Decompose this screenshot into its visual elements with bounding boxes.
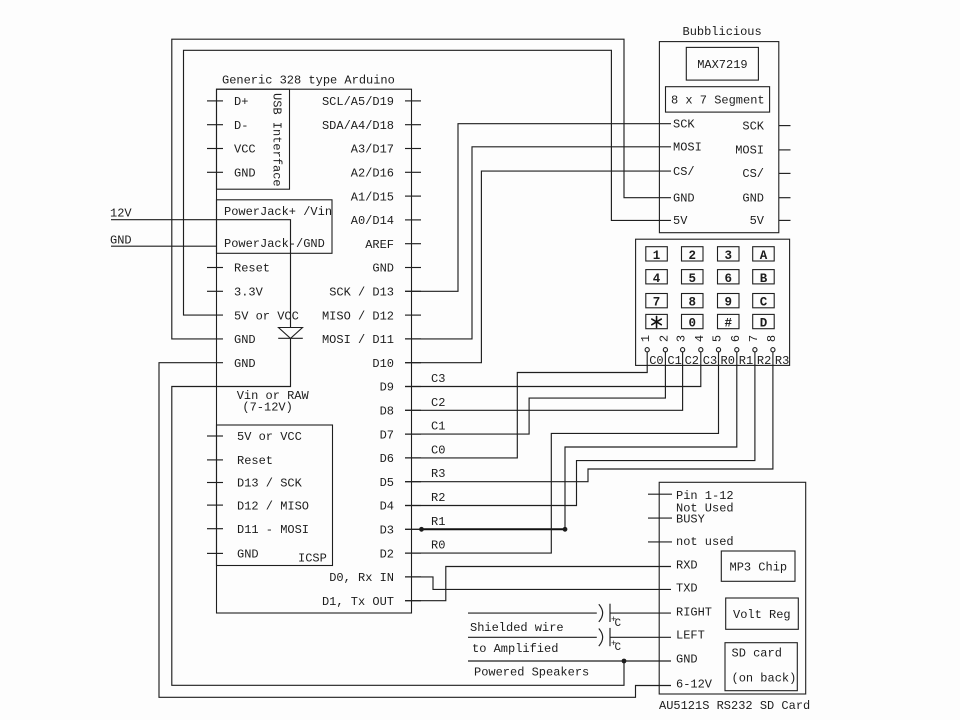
svg-text:(7-12V): (7-12V): [242, 400, 292, 414]
svg-text:12V: 12V: [110, 207, 132, 221]
svg-text:PowerJack+ /Vin: PowerJack+ /Vin: [224, 205, 332, 219]
pin stub ICSP D11: [207, 528, 223, 530]
wire R1: D3 to keypad pin6 (bold segment with junction dots): [405, 528, 422, 530]
svg-text:not used: not used: [676, 535, 734, 549]
svg-text:A2/D16: A2/D16: [351, 167, 394, 181]
svg-text:D4: D4: [380, 500, 394, 514]
svg-text:D3: D3: [380, 524, 394, 538]
svg-text:#: #: [724, 317, 732, 331]
svg-text:8 x 7 Segment: 8 x 7 Segment: [671, 94, 765, 108]
key 6: [718, 270, 740, 284]
svg-text:C2: C2: [685, 354, 699, 368]
svg-text:3: 3: [675, 335, 689, 342]
svg-text:9: 9: [724, 296, 732, 310]
svg-text:D2: D2: [380, 547, 394, 561]
svg-text:D6: D6: [380, 452, 394, 466]
pin stub SDA/A4/D18: [405, 124, 421, 126]
svg-text:GND: GND: [110, 234, 132, 248]
keypad pin circles and digits: [639, 335, 779, 352]
keypad pin 5: [716, 348, 720, 352]
keypad bottom labels C0..R3: [649, 354, 789, 368]
keypad pin 1: [645, 348, 649, 352]
MP3 Chip box: [721, 551, 795, 581]
pin stub USB D-: [207, 124, 223, 126]
wire 5V net: Arduino 5V-or-VCC pin to MAX7219 5V (top route): [184, 50, 672, 315]
pin stub ICSP D13: [207, 482, 223, 484]
svg-text:D-: D-: [234, 119, 248, 133]
net labels C3 C2 C1 C0 R3 R2 R1 R0: [431, 372, 445, 553]
svg-text:6-12V: 6-12V: [676, 678, 713, 692]
svg-text:CS/: CS/: [673, 165, 695, 179]
svg-text:RIGHT: RIGHT: [676, 606, 712, 620]
capacitor C left wire to AU LEFT: [610, 636, 671, 638]
svg-text:R2: R2: [757, 354, 771, 368]
pin stub SCK/D13: [405, 290, 421, 292]
AU5121S pin labels and stubs: [648, 489, 734, 691]
svg-text:5: 5: [688, 272, 696, 286]
svg-text:(on back): (on back): [732, 672, 797, 686]
keypad pin 8: [771, 348, 775, 352]
speaker shield LEFT wire: [468, 636, 597, 638]
wire C2: D8 to keypad pin3: [405, 352, 683, 411]
svg-text:D+: D+: [234, 95, 248, 109]
pin stub USB D+: [207, 100, 223, 102]
speaker shield RIGHT wire: [468, 612, 597, 614]
pin stub D7: [405, 433, 421, 435]
svg-text:SCK / D13: SCK / D13: [329, 286, 394, 300]
svg-text:Generic 328 type Arduino: Generic 328 type Arduino: [222, 74, 395, 88]
svg-text:5V: 5V: [673, 214, 688, 228]
svg-text:TXD: TXD: [676, 582, 698, 596]
svg-text:D5: D5: [380, 476, 394, 490]
svg-text:MP3 Chip: MP3 Chip: [730, 561, 788, 575]
wire CS: Arduino D10 to MAX7219 CS/: [405, 171, 671, 363]
key B: [753, 270, 775, 284]
svg-text:D7: D7: [380, 428, 394, 442]
wire GND2 net: Arduino GND pin 2 to AU5121S 6-12V (bottom route): [159, 363, 671, 698]
svg-text:PowerJack-/GND: PowerJack-/GND: [224, 237, 325, 251]
svg-text:R1: R1: [739, 354, 753, 368]
keypad pin 6: [735, 348, 739, 352]
svg-text:ICSP: ICSP: [298, 552, 327, 566]
pin stub ICSP Reset: [207, 459, 223, 461]
pin stub Reset: [207, 267, 223, 269]
pin stub ICSP D12: [207, 504, 223, 506]
wire C1: D7 to keypad pin2: [405, 352, 665, 434]
svg-text:D: D: [760, 317, 768, 331]
key D: [753, 314, 775, 328]
svg-text:C2: C2: [431, 396, 445, 410]
wire GND input label to PowerJack-: [111, 245, 217, 247]
svg-text:LEFT: LEFT: [676, 629, 705, 643]
key 8: [682, 294, 704, 308]
svg-text:A1/D15: A1/D15: [351, 190, 394, 204]
keypad pin 2: [663, 348, 667, 352]
svg-text:GND: GND: [234, 167, 256, 181]
svg-text:D13 / SCK: D13 / SCK: [237, 477, 303, 491]
svg-text:SCK: SCK: [742, 119, 764, 133]
key 1: [646, 247, 668, 261]
svg-text:R0: R0: [431, 539, 445, 553]
diode D1 triangle: [279, 328, 303, 339]
key #: [718, 314, 740, 328]
svg-text:C3: C3: [431, 372, 445, 386]
IC U1 Generic 328 Arduino box: [217, 89, 412, 613]
svg-text:C1: C1: [431, 420, 445, 434]
svg-text:GND: GND: [673, 191, 695, 205]
svg-text:R3: R3: [775, 354, 789, 368]
pin stub D1: [405, 600, 421, 602]
Bubblicious module box: [659, 42, 778, 233]
svg-text:Reset: Reset: [237, 454, 273, 468]
svg-text:8: 8: [765, 335, 779, 342]
left pin labels group: [234, 95, 310, 561]
capacitor C left: straight plate: [609, 628, 611, 646]
svg-text:R1: R1: [431, 515, 445, 529]
pin stub MOSI/D11: [405, 338, 421, 340]
svg-text:SDA/A4/D18: SDA/A4/D18: [322, 119, 394, 133]
key 3: [718, 247, 740, 261]
capacitor C left: curved plate: [599, 629, 603, 647]
pin stub ICSP 5V: [207, 435, 223, 437]
junction dot R1 right: [563, 527, 568, 532]
svg-text:5V: 5V: [750, 214, 765, 228]
svg-text:C: C: [760, 296, 768, 310]
pin stub A3/D17: [405, 148, 421, 150]
keypad pin 3: [681, 348, 685, 352]
left pin ticks group: [207, 101, 223, 554]
USB Interface box: [217, 89, 290, 189]
svg-text:RXD: RXD: [676, 559, 698, 573]
svg-text:GND: GND: [237, 548, 259, 562]
keypad pin 7: [753, 348, 757, 352]
svg-text:7: 7: [653, 296, 661, 310]
pin stub D9: [405, 386, 421, 388]
pin stub D6: [405, 457, 421, 459]
svg-text:3: 3: [724, 249, 732, 263]
pin stub ICSP GND: [207, 552, 223, 554]
svg-text:B: B: [760, 272, 768, 286]
svg-text:2: 2: [688, 249, 696, 263]
pin stub AREF: [405, 243, 421, 245]
key 2: [682, 247, 704, 261]
pin stub D10: [405, 362, 421, 364]
speaker shield GND wire to AU GND: [468, 660, 671, 662]
svg-text:GND: GND: [234, 357, 256, 371]
svg-text:Shielded wire: Shielded wire: [470, 621, 564, 635]
svg-text:2: 2: [657, 335, 671, 342]
key 7: [646, 294, 668, 308]
pin stub USB VCC: [207, 148, 223, 150]
svg-text:R2: R2: [431, 491, 445, 505]
svg-text:SD card: SD card: [732, 647, 782, 661]
svg-text:MOSI: MOSI: [673, 141, 702, 155]
junction dot R1 left: [419, 527, 424, 532]
MAX7219 pin labels and stubs: [673, 117, 791, 228]
wire D1 Tx OUT to AU5121S RXD: [405, 567, 671, 601]
keypad box: [636, 239, 790, 365]
diode D1 cathode bar: [278, 337, 303, 339]
wire C0: D6 to keypad pin1: [405, 352, 647, 458]
svg-text:to Amplified: to Amplified: [472, 642, 558, 656]
svg-text:Bubblicious: Bubblicious: [683, 25, 762, 39]
svg-text:4: 4: [653, 272, 661, 286]
pin stub D2: [405, 552, 421, 554]
wire R0: D2 to keypad pin5: [405, 352, 719, 553]
wire MOSI: Arduino MOSI/D11 to MAX7219 MOSI: [405, 147, 671, 339]
key 0: [682, 314, 704, 328]
svg-text:SCL/A5/D19: SCL/A5/D19: [322, 95, 394, 109]
ICSP box: [217, 425, 333, 566]
pin stub GND: [405, 267, 421, 269]
svg-text:4: 4: [693, 335, 707, 342]
svg-text:R3: R3: [431, 467, 445, 481]
svg-text:SCK: SCK: [673, 117, 695, 131]
svg-text:D10: D10: [372, 357, 394, 371]
svg-text:MISO / D12: MISO / D12: [322, 309, 394, 323]
pin stub 3.3V: [207, 290, 223, 292]
wire SCK: Arduino SCK/D13 to MAX7219 SCK: [405, 124, 671, 292]
pin stub A2/D16: [405, 171, 421, 173]
svg-text:USB Interface: USB Interface: [270, 93, 284, 187]
pin stub USB GND: [207, 171, 223, 173]
svg-text:1: 1: [653, 249, 661, 263]
svg-text:3.3V: 3.3V: [234, 286, 264, 300]
Volt Reg box: [726, 598, 799, 629]
pin stub AU not used: [648, 541, 672, 543]
svg-text:VCC: VCC: [234, 143, 256, 157]
PowerJack box: [217, 200, 333, 254]
svg-text:D1, Tx OUT: D1, Tx OUT: [322, 595, 394, 609]
svg-text:5V or VCC: 5V or VCC: [234, 309, 299, 323]
wire R2: D4 to keypad pin7: [405, 352, 755, 506]
pin stub SCL/A5/D19: [405, 100, 421, 102]
svg-text:D11 - MOSI: D11 - MOSI: [237, 523, 309, 537]
pin stub D4: [405, 505, 421, 507]
svg-text:D12 / MISO: D12 / MISO: [237, 499, 309, 513]
wire GND net: Arduino GND pin to MAX7219 GND (top route): [172, 39, 671, 339]
svg-text:Volt Reg: Volt Reg: [733, 608, 791, 622]
capacitor C right: straight plate: [609, 604, 611, 622]
svg-text:C0: C0: [649, 354, 663, 368]
svg-text:D9: D9: [380, 381, 394, 395]
SD card box: [725, 643, 797, 691]
svg-text:5: 5: [711, 335, 725, 342]
svg-text:A: A: [760, 249, 768, 263]
keypad keys: [646, 247, 774, 331]
pin stub AU BUSY: [648, 517, 672, 519]
svg-text:Reset: Reset: [234, 262, 270, 276]
AU5121S box: [659, 482, 806, 694]
key 5: [682, 270, 704, 284]
svg-text:C: C: [615, 618, 622, 630]
svg-text:6: 6: [729, 335, 743, 342]
svg-text:0: 0: [688, 317, 696, 331]
svg-text:GND: GND: [676, 653, 698, 667]
pin stub D8: [405, 409, 421, 411]
wire C3: D9 to keypad pin4: [405, 352, 701, 387]
svg-text:5V or VCC: 5V or VCC: [237, 430, 302, 444]
svg-text:A0/D14: A0/D14: [351, 214, 394, 228]
key 9: [718, 294, 740, 308]
pin stub MISO/D12: [405, 314, 421, 316]
wire 12V input to diode anode: [111, 220, 291, 328]
pin stub A1/D15: [405, 195, 421, 197]
key C: [753, 294, 775, 308]
svg-text:MOSI: MOSI: [735, 144, 764, 158]
svg-text:8: 8: [688, 296, 696, 310]
svg-text:A3/D17: A3/D17: [351, 143, 394, 157]
pin stub D3: [405, 528, 421, 530]
wire D0 Rx IN to AU5121S TXD: [405, 577, 671, 590]
key 4: [646, 270, 668, 284]
MAX7219 box: [686, 47, 758, 80]
svg-text:C: C: [615, 642, 622, 654]
svg-text:BUSY: BUSY: [676, 513, 705, 527]
wire R3: D5 to keypad pin8: [405, 352, 773, 482]
svg-text:GND: GND: [742, 191, 764, 205]
keypad pin 4: [699, 348, 703, 352]
svg-text:7: 7: [747, 335, 761, 342]
svg-text:D8: D8: [380, 405, 394, 419]
svg-text:MAX7219: MAX7219: [697, 58, 747, 72]
svg-text:R0: R0: [721, 354, 735, 368]
pin stub D5: [405, 481, 421, 483]
svg-text:GND: GND: [234, 333, 256, 347]
right pin ticks group: [405, 101, 421, 601]
pin stub AU Pin 1-12: [648, 493, 672, 495]
svg-text:C1: C1: [667, 354, 681, 368]
key *: [646, 314, 668, 328]
svg-text:CS/: CS/: [742, 167, 764, 181]
right pin labels group: [322, 95, 394, 609]
svg-text:C0: C0: [431, 443, 445, 457]
svg-text:6: 6: [724, 272, 732, 286]
svg-text:GND: GND: [372, 262, 394, 276]
capacitor C right: curved plate: [599, 604, 603, 622]
capacitor C right wire to AU RIGHT: [610, 612, 671, 614]
wire diode cathode to Vin/RAW pin, down to AU5121S GND: [172, 338, 624, 685]
svg-text:AREF: AREF: [365, 238, 394, 252]
svg-text:AU5121S RS232 SD Card: AU5121S RS232 SD Card: [659, 699, 810, 713]
svg-text:1: 1: [639, 335, 653, 342]
key A: [753, 247, 775, 261]
8 x 7 Segment box: [666, 87, 770, 112]
junction dot AU GND: [622, 659, 627, 664]
pin stub A0/D14: [405, 219, 421, 221]
svg-text:C3: C3: [703, 354, 717, 368]
svg-text:MOSI / D11: MOSI / D11: [322, 333, 394, 347]
svg-text:D0, Rx IN: D0, Rx IN: [329, 571, 394, 585]
pin stub D0: [405, 576, 421, 578]
svg-text:Powered Speakers: Powered Speakers: [474, 666, 589, 680]
